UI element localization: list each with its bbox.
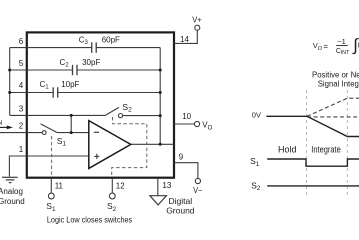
svg-text:V+: V+ [192, 16, 202, 25]
svg-text:=: = [324, 42, 329, 51]
svg-text:30pF: 30pF [82, 58, 100, 67]
svg-text:Signal Integration: Signal Integration [318, 79, 359, 88]
svg-text:60pF: 60pF [102, 35, 120, 44]
svg-text:S1: S1 [250, 156, 260, 168]
svg-text:2: 2 [19, 121, 24, 130]
svg-text:Hold: Hold [278, 145, 297, 155]
svg-text:10pF: 10pF [61, 80, 79, 89]
svg-text:INT: INT [341, 50, 351, 56]
svg-text:12: 12 [116, 182, 125, 191]
svg-text:VO: VO [202, 121, 212, 132]
svg-text:5: 5 [19, 59, 24, 68]
svg-text:13: 13 [162, 181, 171, 190]
svg-text:C2: C2 [60, 58, 70, 69]
svg-text:11: 11 [55, 182, 64, 191]
svg-text:4: 4 [19, 81, 24, 90]
svg-text:N: N [0, 120, 3, 127]
svg-text:Ground: Ground [166, 205, 195, 215]
svg-text:S2: S2 [122, 102, 132, 114]
svg-text:−1: −1 [337, 37, 346, 46]
svg-text:Integrate: Integrate [311, 144, 341, 154]
svg-text:S2: S2 [251, 180, 261, 192]
svg-text:10: 10 [182, 112, 191, 121]
svg-text:9: 9 [179, 153, 184, 162]
svg-text:Positive or Negative: Positive or Negative [312, 70, 359, 79]
svg-text:V−: V− [193, 186, 203, 195]
svg-text:6: 6 [19, 37, 24, 46]
svg-text:1: 1 [19, 145, 24, 154]
svg-text:0V: 0V [252, 111, 261, 120]
svg-text:O: O [318, 46, 323, 52]
svg-text:C3: C3 [79, 35, 89, 46]
svg-text:Analog: Analog [0, 187, 23, 196]
svg-text:S1: S1 [57, 136, 67, 148]
svg-text:S2: S2 [107, 201, 117, 213]
svg-text:S1: S1 [46, 201, 56, 213]
svg-text:C1: C1 [40, 80, 50, 91]
svg-text:14: 14 [180, 35, 189, 44]
svg-text:Ground: Ground [0, 197, 25, 206]
svg-text:Logic Low closes switches: Logic Low closes switches [47, 215, 132, 224]
svg-text:3: 3 [19, 105, 24, 114]
